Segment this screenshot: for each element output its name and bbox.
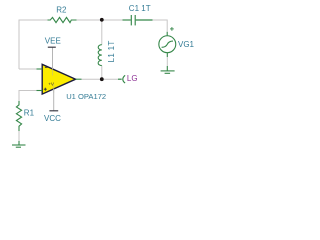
svg-text:L1 1T: L1 1T [107, 40, 116, 62]
resistor R2 [48, 17, 77, 22]
node B junction dot [100, 77, 104, 81]
op-amp supply pin stubs inside body [52, 66, 54, 76]
wire R1 bottom to ground [18, 131, 20, 141]
wire C1 to VG1 corner [153, 20, 168, 32]
svg-text:VEE: VEE [45, 36, 61, 45]
wire non-inverting input stub [19, 91, 42, 102]
wire L1 bottom to node B [101, 66, 103, 80]
svg-text:LG: LG [127, 74, 138, 83]
capacitor C1 [123, 15, 153, 25]
ground under R1 [12, 141, 26, 147]
wire top-left corner to R2 [19, 20, 48, 69]
VEE supply jumper [48, 47, 56, 69]
svg-text:R2: R2 [56, 5, 67, 14]
resistor R1 [16, 101, 21, 131]
svg-text:R1: R1 [24, 108, 35, 117]
voltage source VG1 [159, 32, 176, 57]
wire R2 to node A [77, 19, 102, 21]
wire node A to C1 [102, 19, 123, 21]
wire VG1 bottom to ground [166, 57, 168, 66]
wire op-amp output to node B [82, 78, 102, 80]
wire inverting input stub [19, 68, 37, 70]
LG output tap [118, 75, 125, 83]
svg-text:C1 1T: C1 1T [129, 4, 151, 13]
op-amp output green pin [76, 78, 82, 80]
svg-text:U1 OPA172: U1 OPA172 [66, 92, 106, 101]
wire node B to LG tap [102, 78, 118, 80]
VCC supply jumper [49, 89, 58, 111]
svg-text:VG1: VG1 [178, 40, 195, 49]
inductor L1 [98, 45, 102, 66]
op-amp minus sign [45, 66, 48, 68]
svg-text:+V: +V [48, 81, 55, 86]
svg-text:VCC: VCC [44, 114, 61, 123]
ground under VG1 [161, 66, 175, 73]
wire node A to L1 top [101, 20, 103, 45]
node A junction dot [100, 18, 104, 22]
op-amp inverting input green pin [37, 68, 43, 70]
op-amp plus sign [44, 88, 47, 91]
op-amp non-inverting green pin [37, 90, 43, 92]
op-amp U1 [42, 64, 75, 94]
VG1 plus sign [170, 27, 174, 31]
